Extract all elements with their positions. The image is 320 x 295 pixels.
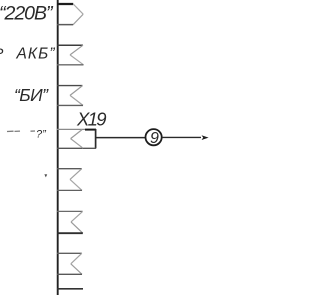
socket flag "БИ" xyxy=(57,86,83,106)
socket flag row 7 xyxy=(57,253,82,274)
socket flag row 6 xyxy=(57,211,83,233)
connector X19 body (rectangle with female contact chevron) xyxy=(57,129,96,148)
wire X19 to circle 9 xyxy=(96,137,146,139)
svg-text:“220В”: “220В” xyxy=(0,2,54,24)
socket flag row 8 (cut off at bottom edge) xyxy=(57,288,83,290)
socket flag row 5 xyxy=(57,169,82,191)
svg-text:Р: Р xyxy=(0,45,4,61)
socket flag "АКБ" xyxy=(57,45,84,65)
svg-text:X19: X19 xyxy=(76,108,107,129)
svg-text:?”: ?” xyxy=(36,129,47,141)
stray mark (faded quote) xyxy=(44,174,47,177)
svg-text:9: 9 xyxy=(150,130,159,147)
wire number circle 9 xyxy=(146,129,162,145)
svg-text:“БИ”: “БИ” xyxy=(14,85,49,105)
contact chevron (pin pointing left) xyxy=(71,130,82,139)
svg-text:АКБ”: АКБ” xyxy=(16,46,56,63)
device edge vertical line xyxy=(57,0,59,295)
pin X19:1 "220В" (male pin pentagon) xyxy=(57,4,83,25)
arrowhead (off-sheet direction) xyxy=(202,135,209,140)
wire circle 9 to arrow xyxy=(162,136,201,138)
faded label row 4 (dashes and ?) xyxy=(7,130,35,133)
